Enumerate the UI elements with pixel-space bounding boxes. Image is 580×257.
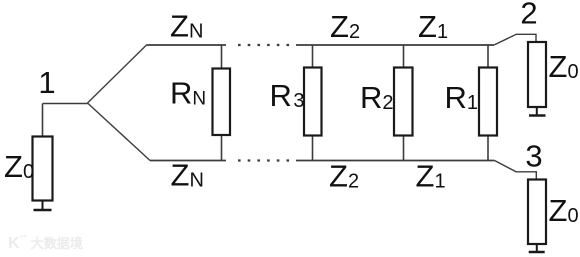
svg-text:3: 3	[525, 139, 542, 174]
resistor Z0 port1 termination	[33, 137, 53, 201]
wire port3	[495, 161, 537, 181]
wire R3 bottom lead	[312, 135, 314, 161]
wire port1 vertical stub to Z0	[42, 104, 44, 138]
wire port2	[494, 34, 536, 45]
wire R2 top lead	[403, 45, 405, 68]
wire port1 horizontal	[43, 103, 89, 105]
wire R3 top lead	[312, 45, 314, 68]
resistor Z0 port3 termination	[528, 180, 546, 245]
svg-text:1: 1	[38, 65, 55, 100]
wire R1 top lead	[487, 45, 489, 68]
resistor RN	[213, 69, 231, 136]
resistor R1	[479, 68, 497, 136]
wire bottom line dotted segment	[238, 159, 292, 161]
wire split diagonal up	[88, 45, 147, 103]
wire top line dotted segment	[238, 44, 292, 46]
wire RN bottom lead	[221, 135, 223, 161]
ground (port 1 termination)	[34, 201, 52, 211]
resistor R2	[394, 68, 413, 136]
ground (port 3 termination)	[529, 244, 545, 252]
svg-text:K°°大数据境: K°°大数据境	[8, 233, 83, 252]
resistor Z0 port2 termination	[528, 42, 546, 107]
ground (port 2 termination)	[529, 107, 546, 116]
wire bottom line solid left segment	[150, 160, 226, 162]
wire bottom line solid right segment	[296, 160, 495, 162]
wire R1 bottom lead	[487, 135, 489, 161]
wire R2 bottom lead	[403, 135, 405, 161]
resistor R3	[304, 68, 322, 136]
wire top line solid left segment	[147, 44, 227, 46]
wire top line solid right segment	[296, 44, 494, 46]
wire RN top lead	[221, 45, 223, 69]
svg-text:2: 2	[520, 0, 537, 31]
wire split diagonal down	[88, 103, 151, 161]
